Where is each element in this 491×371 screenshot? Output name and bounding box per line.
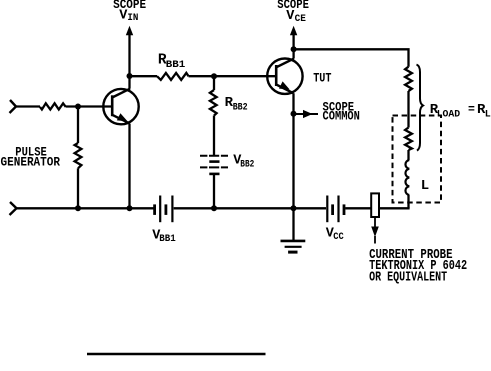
terminal input bottom bbox=[10, 202, 17, 215]
transistor Q2 emitter arrow bbox=[279, 81, 290, 89]
battery VCC plates bbox=[326, 196, 328, 223]
wire Q1 collector up bbox=[128, 76, 130, 89]
wire Q2 collector up bbox=[292, 49, 294, 58]
node E scope common bbox=[291, 111, 297, 117]
svg-text:CC: CC bbox=[333, 232, 344, 243]
wire inductor bottom to rail bbox=[407, 195, 409, 208]
node B bbox=[127, 73, 133, 79]
wire bottom rail mid bbox=[174, 207, 326, 209]
scope Vin arrow bbox=[128, 33, 130, 76]
terminal input top bbox=[10, 100, 17, 113]
svg-text:SCOPE: SCOPE bbox=[113, 0, 146, 12]
transistor Q1 collector lead bbox=[112, 89, 130, 98]
node H bbox=[211, 205, 217, 211]
svg-text:GENERATOR: GENERATOR bbox=[1, 156, 61, 170]
inductor L bbox=[405, 160, 409, 195]
scope Vce arrow bbox=[292, 33, 294, 49]
svg-text:BB2: BB2 bbox=[240, 160, 254, 171]
svg-text:IN: IN bbox=[127, 13, 138, 24]
wire pulse branch upper bbox=[77, 107, 79, 144]
wire RBB1 to TUT base bbox=[189, 75, 277, 77]
scope common arrow bbox=[296, 113, 318, 115]
transistor Q1 emitter lead bbox=[112, 115, 130, 124]
wire base Q1 bbox=[66, 105, 112, 107]
battery VBB2 plates bbox=[200, 155, 228, 157]
ground bbox=[292, 208, 294, 240]
wire RBB2 top bbox=[213, 76, 215, 90]
wire rail to probe bbox=[345, 207, 371, 209]
resistor RBB1 bbox=[157, 73, 189, 80]
resistor Rload lower bbox=[405, 128, 412, 151]
wire between load resistors bbox=[407, 91, 409, 128]
wire RBB2 to VBB2 bbox=[213, 116, 215, 156]
current probe pointer bbox=[374, 217, 376, 227]
svg-text:LOAD: LOAD bbox=[437, 109, 461, 120]
node G bbox=[127, 205, 133, 211]
svg-text:CE: CE bbox=[295, 14, 306, 25]
svg-text:OR EQUIVALENT: OR EQUIVALENT bbox=[369, 271, 447, 286]
node D bbox=[291, 46, 297, 52]
wire node B to RBB1 bbox=[130, 75, 158, 77]
wire top input bbox=[16, 105, 40, 107]
node C bbox=[211, 73, 217, 79]
resistor Rload upper bbox=[405, 67, 412, 91]
resistor pulse-gen shunt bbox=[75, 143, 82, 168]
dashed box bbox=[393, 116, 442, 203]
brace Rload bbox=[417, 65, 424, 151]
svg-text:TUT: TUT bbox=[313, 70, 331, 85]
transistor Q2 TUT circle bbox=[267, 58, 302, 93]
svg-text:COMMON: COMMON bbox=[323, 110, 360, 124]
transistor Q1 circle bbox=[103, 89, 138, 124]
wire top right bbox=[294, 49, 409, 66]
transistor Q2 base bar bbox=[275, 65, 278, 86]
resistor pulse-gen series bbox=[40, 103, 66, 109]
wire resistor to inductor bbox=[407, 150, 409, 160]
svg-text:=: = bbox=[468, 103, 475, 116]
transistor Q1 emitter arrow bbox=[117, 113, 128, 121]
wire Q1 emitter down bbox=[128, 124, 130, 209]
svg-text:BB2: BB2 bbox=[233, 102, 248, 113]
svg-text:BB1: BB1 bbox=[166, 60, 186, 71]
svg-text:BB1: BB1 bbox=[159, 234, 176, 245]
transistor Q2 collector lead bbox=[276, 59, 294, 68]
resistor RBB2 bbox=[210, 90, 217, 116]
battery VBB1 plates bbox=[153, 204, 156, 215]
current probe body bbox=[371, 193, 379, 217]
transistor Q1 base bar bbox=[111, 95, 114, 116]
bottom rule bbox=[87, 353, 266, 355]
wire Q2 emitter down bbox=[292, 93, 294, 208]
wire bottom rail left bbox=[17, 207, 155, 209]
wire pulse branch lower bbox=[77, 168, 79, 208]
wire VBB2 bottom bbox=[213, 175, 215, 208]
node I bbox=[291, 205, 297, 211]
wire probe to load branch bbox=[379, 207, 410, 209]
node F bbox=[75, 205, 81, 211]
svg-text:L: L bbox=[485, 109, 491, 120]
svg-text:L: L bbox=[421, 178, 429, 194]
node A bbox=[75, 104, 81, 110]
transistor Q2 emitter lead bbox=[276, 85, 293, 94]
